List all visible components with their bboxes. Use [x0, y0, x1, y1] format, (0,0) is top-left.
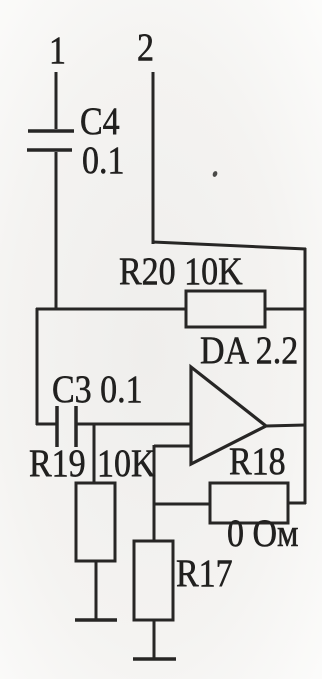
wire: [93, 424, 96, 483]
svg-text:C3 0.1: C3 0.1: [52, 367, 143, 411]
svg-text:R20 10K: R20 10K: [119, 249, 243, 293]
capacitor C4: [27, 131, 74, 150]
wire: [153, 620, 156, 659]
scan speck: [212, 170, 219, 177]
svg-text:C4: C4: [80, 99, 120, 143]
wire: [36, 308, 186, 311]
svg-text:1: 1: [49, 28, 66, 72]
wire: [153, 242, 306, 249]
svg-text:0 Ом: 0 Ом: [227, 511, 299, 555]
resistor R19: [76, 483, 115, 561]
wire pin 2 lead: [152, 72, 155, 244]
wire: [55, 152, 58, 310]
resistor R20: [186, 291, 265, 327]
wire: [76, 423, 191, 426]
svg-text:R18: R18: [229, 439, 286, 483]
wire: [288, 502, 306, 505]
capacitor C3: [57, 406, 76, 447]
wire: [265, 308, 305, 311]
ground: [133, 657, 176, 661]
resistor R18: [210, 483, 288, 523]
wire: [304, 248, 307, 504]
svg-text:0.1: 0.1: [82, 138, 124, 182]
op-amp DA2.2: [191, 367, 266, 464]
wire pin 1 lead: [55, 72, 58, 129]
wire: [95, 561, 98, 620]
wire: [36, 423, 56, 426]
svg-text:2: 2: [137, 25, 154, 69]
wire: [153, 445, 156, 542]
wire: [266, 425, 305, 426]
wire: [154, 503, 210, 506]
wire: [154, 445, 191, 448]
svg-text:10K: 10K: [97, 441, 156, 485]
wire: [36, 308, 39, 425]
svg-text:R17: R17: [176, 551, 233, 595]
resistor R17: [134, 541, 173, 620]
ground: [75, 618, 117, 622]
svg-text:DA 2.2: DA 2.2: [200, 328, 298, 372]
svg-text:R19: R19: [29, 441, 86, 485]
